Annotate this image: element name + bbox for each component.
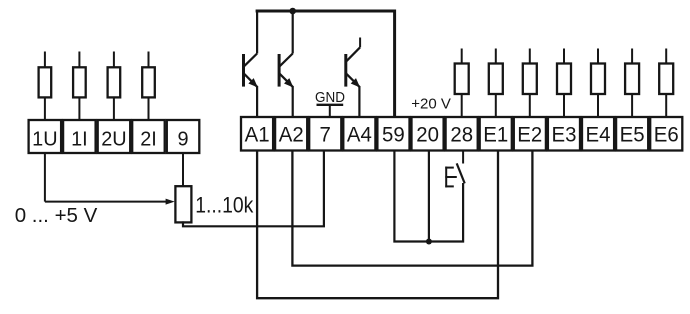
- svg-text:E1: E1: [483, 123, 508, 147]
- svg-text:1...10k: 1...10k: [195, 193, 254, 217]
- svg-text:+20 V: +20 V: [411, 95, 451, 112]
- svg-text:A2: A2: [279, 123, 304, 147]
- svg-text:9: 9: [177, 128, 188, 150]
- svg-text:E5: E5: [620, 123, 645, 147]
- svg-text:0 ... +5 V: 0 ... +5 V: [15, 204, 98, 227]
- svg-text:2I: 2I: [140, 128, 157, 150]
- svg-text:A4: A4: [347, 123, 372, 147]
- svg-text:28: 28: [450, 123, 473, 147]
- svg-text:A1: A1: [245, 123, 270, 147]
- svg-text:7: 7: [320, 123, 331, 147]
- svg-text:1U: 1U: [32, 128, 57, 150]
- svg-text:20: 20: [416, 123, 439, 147]
- svg-text:E4: E4: [586, 123, 611, 147]
- svg-text:E2: E2: [517, 123, 542, 147]
- svg-text:59: 59: [382, 123, 405, 147]
- svg-text:GND: GND: [315, 88, 345, 105]
- svg-text:2U: 2U: [101, 128, 126, 150]
- svg-text:1I: 1I: [71, 128, 88, 150]
- svg-text:E6: E6: [654, 123, 679, 147]
- svg-text:E3: E3: [552, 123, 577, 147]
